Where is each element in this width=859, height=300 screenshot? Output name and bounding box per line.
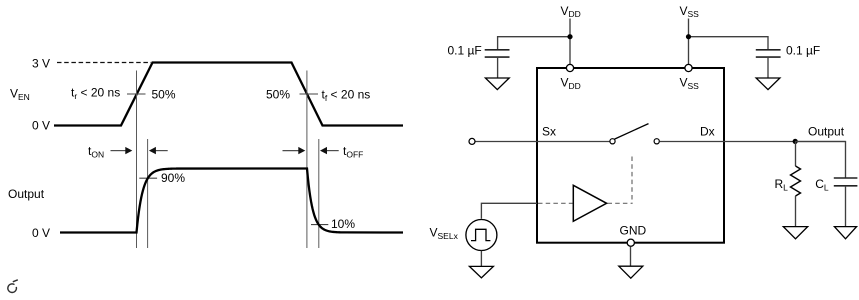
svg-text:GND: GND: [620, 224, 647, 238]
svg-text:Output: Output: [808, 125, 845, 139]
svg-text:VDD: VDD: [561, 4, 581, 19]
ground (VSELx): [469, 266, 493, 278]
dashed control line from driver apex: [608, 202, 633, 204]
node VSS junction dot: [686, 34, 691, 39]
wire RL to ground: [795, 196, 797, 227]
wire VSELx to box: [481, 203, 537, 219]
wire Sx input: [475, 141, 609, 143]
switch S1 right contact: [654, 139, 659, 144]
wire Dx to output node: [660, 141, 846, 143]
dashed control line into driver: [538, 202, 573, 204]
node Output junction dot: [793, 139, 798, 144]
wire VDD supply vertical: [569, 19, 571, 65]
wire output node down to RL: [795, 142, 797, 167]
IC U1 body: [537, 68, 724, 243]
capacitor C1 0.1uF plates: [485, 50, 510, 57]
switch S1 left contact: [610, 139, 615, 144]
svg-text:0 V: 0 V: [32, 119, 50, 133]
switch S1 blade: [615, 124, 649, 140]
svg-text:VEN: VEN: [10, 86, 30, 102]
ground (RL): [783, 227, 807, 239]
pin VSS open circle: [685, 64, 692, 71]
wire GND pin to ground: [630, 247, 632, 266]
svg-text:VSELx: VSELx: [430, 226, 459, 241]
wire VSS to bypass cap C2: [689, 37, 769, 50]
capacitor C2 0.1uF plates: [756, 50, 781, 57]
tOFF measure arrow pointing left: [320, 147, 339, 154]
svg-text:50%: 50%: [152, 88, 176, 102]
pin GND open circle: [627, 239, 634, 246]
50% tick on falling edge: [300, 93, 319, 95]
tON measure arrow pointing left: [149, 147, 168, 154]
source VSELx circle: [466, 220, 497, 251]
90% tick on output rise: [139, 177, 157, 179]
svg-text:10%: 10%: [331, 217, 355, 231]
svg-text:RL: RL: [775, 177, 789, 193]
svg-text:0 V: 0 V: [32, 226, 50, 240]
cursor line at output 90% crossing: [147, 139, 149, 248]
svg-text:VDD: VDD: [561, 76, 581, 91]
svg-text:tr < 20 ns: tr < 20 ns: [71, 86, 120, 102]
capacitor CL plates: [834, 178, 858, 186]
ground (C2): [756, 78, 780, 90]
svg-text:50%: 50%: [266, 88, 290, 102]
svg-text:VSS: VSS: [680, 76, 700, 91]
ground (C1): [485, 78, 509, 90]
wire C1 to ground: [497, 57, 499, 78]
output waveform trace: [60, 169, 403, 233]
pin VDD open circle: [566, 64, 573, 71]
svg-text:tOFF: tOFF: [343, 144, 363, 160]
svg-text:Dx: Dx: [700, 124, 715, 138]
10% tick on output fall: [311, 224, 328, 226]
svg-text:VSS: VSS: [680, 4, 700, 19]
resistor RL: [791, 166, 801, 196]
svg-text:0.1 µF: 0.1 µF: [448, 44, 482, 58]
wire CL to ground: [845, 186, 847, 227]
svg-text:Output: Output: [8, 187, 45, 201]
svg-text:90%: 90%: [161, 171, 185, 185]
VEN 3V dashed reference line: [57, 62, 151, 64]
driver buffer triangle: [573, 185, 606, 221]
corner glyph: [8, 280, 18, 293]
cursor line at VEN falling-edge 50% crossing: [306, 71, 308, 249]
wire output node to CL: [795, 142, 846, 179]
tON measure arrow pointing right: [111, 147, 133, 154]
VEN waveform trace: [54, 63, 403, 126]
cursor line at output 10% crossing: [318, 139, 320, 248]
source VSELx pulse symbol: [471, 229, 490, 240]
svg-text:3 V: 3 V: [32, 57, 50, 71]
svg-text:tf < 20 ns: tf < 20 ns: [322, 88, 371, 104]
svg-text:CL: CL: [815, 177, 829, 193]
wire VSELx to ground: [480, 251, 482, 267]
svg-text:tON: tON: [88, 144, 104, 160]
svg-text:Sx: Sx: [542, 125, 556, 139]
cursor line at VEN rising-edge 50% crossing: [136, 71, 138, 249]
tOFF measure arrow pointing right: [283, 147, 306, 154]
node VDD junction dot: [567, 34, 572, 39]
svg-text:0.1 µF: 0.1 µF: [786, 44, 820, 58]
wire VDD to bypass cap C1: [498, 37, 570, 50]
dashed control line vertical to switch: [631, 157, 633, 204]
wire VSS supply vertical: [688, 19, 690, 65]
ground (GND pin): [619, 266, 643, 278]
terminal Sx input open circle: [469, 138, 475, 144]
wire C2 to ground: [767, 57, 769, 78]
ground (CL): [834, 227, 856, 239]
50% tick on rising edge: [127, 93, 146, 95]
